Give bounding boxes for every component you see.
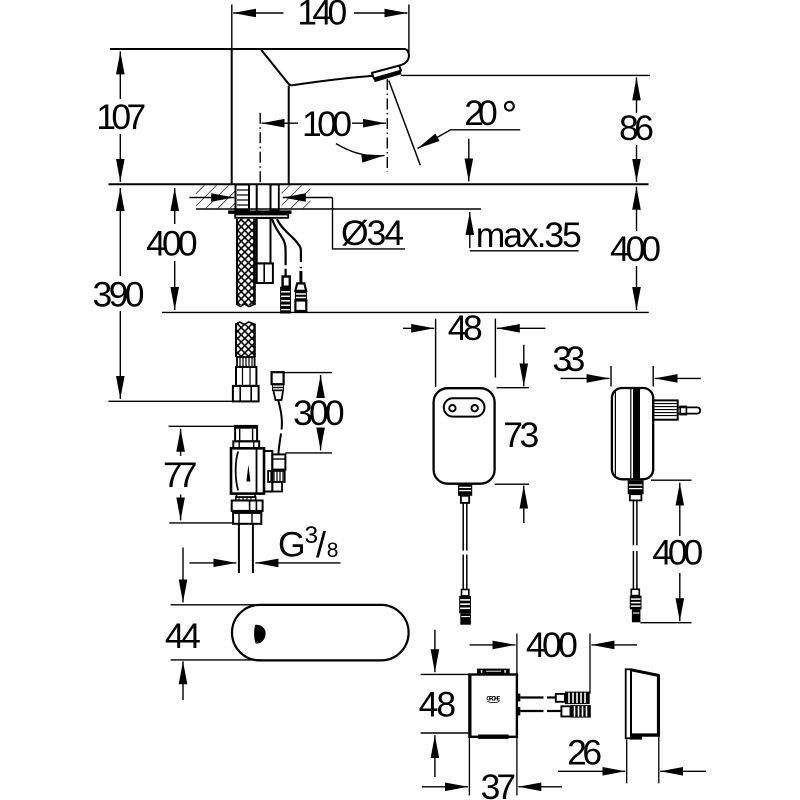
dimension 400 left arrow up: [174, 188, 176, 224]
hose collar: [236, 367, 256, 386]
svg-text:48: 48: [448, 308, 483, 348]
dimension 33 arrow left: [561, 377, 610, 379]
svg-text:86: 86: [619, 108, 654, 148]
counter underside line: [196, 208, 481, 210]
dimension 37 arrow right: [518, 786, 562, 788]
cover bottom step: [630, 736, 642, 740]
svg-text:/: /: [316, 524, 326, 565]
shank inner tube: [257, 185, 271, 211]
dimension 400 adapter label: [652, 532, 703, 572]
control box right edge extension upper: [516, 634, 518, 675]
dimension 140 arrow right: [354, 12, 408, 14]
dimension 390 arrow down: [119, 311, 121, 399]
20 degree leader line: [418, 130, 521, 149]
dimension 400 right label: [610, 229, 661, 269]
control box right edge extension lower: [516, 737, 518, 796]
svg-text:G: G: [278, 524, 306, 564]
svg-text:26: 26: [567, 733, 602, 773]
angle arc with arrow: [336, 144, 385, 156]
dimension 26 arrow right: [660, 770, 706, 772]
box wire nub 1: [517, 694, 520, 702]
dimension 400 right arrow up: [636, 187, 638, 231]
box wire 2 connector: [561, 705, 590, 718]
solenoid cable: [278, 400, 282, 455]
dimension 48 adapter label: [448, 308, 483, 348]
dimension 107 arrow up: [119, 51, 121, 99]
euro plug pin: [678, 406, 700, 414]
faucet spout underside: [291, 76, 372, 86]
socket hole right: [472, 405, 478, 411]
svg-text:77: 77: [163, 455, 198, 495]
dimension 77 tick top: [169, 425, 235, 427]
svg-text:44: 44: [165, 616, 201, 656]
dimension 73 arrow up: [523, 486, 525, 523]
svg-text:Ø34: Ø34: [341, 213, 404, 253]
adapter side cord connector: [630, 589, 642, 622]
faucet neck diagonal: [261, 50, 291, 85]
dimension 48 box label: [419, 685, 457, 725]
faucet spout right edge curve: [399, 56, 409, 66]
power adapter front body: [434, 388, 495, 484]
dimension 140 arrow left: [233, 12, 283, 14]
box wire 1 connector: [556, 692, 590, 705]
svg-text:390: 390: [93, 275, 145, 315]
control box bottom bar: [478, 735, 508, 739]
20 degree label: [464, 93, 514, 133]
valve outlet neck: [237, 494, 256, 498]
dimension 33 extension left: [610, 366, 612, 387]
max.35 label: [476, 215, 582, 255]
svg-text:400: 400: [146, 224, 198, 264]
box wire 2: [520, 710, 561, 712]
svg-text:max.35: max.35: [476, 215, 582, 255]
valve collar: [233, 441, 259, 448]
faucet sensor centerline: [259, 113, 261, 184]
thread size G3/8 arrow left: [189, 562, 236, 564]
thread size label G3/8: [278, 522, 338, 565]
dimension 26 label: [567, 733, 602, 773]
diameter 34 label: [341, 213, 404, 253]
dimension 48 adapter extension left: [435, 319, 437, 387]
mounting flange plate: [228, 210, 291, 214]
supply hose upper braided segment: [236, 219, 255, 307]
thread size G3/8 arrow right: [255, 562, 340, 564]
svg-text:400: 400: [610, 229, 661, 269]
svg-text:400: 400: [526, 625, 578, 665]
dimension 44 arrow up: [182, 661, 184, 700]
dimension 107 arrow down: [119, 134, 121, 182]
dimension 100 arrow left: [262, 122, 298, 124]
dimension 37 arrow left: [422, 786, 468, 788]
svg-text:20: 20: [464, 93, 498, 133]
svg-text:400: 400: [652, 532, 703, 572]
dimension 33 label: [552, 339, 585, 379]
dimension 86 arrow up: [636, 77, 638, 113]
countertop surface down arrow: [468, 139, 470, 182]
sensor wire 1 plug: [280, 277, 291, 314]
control box top cap: [477, 669, 510, 675]
valve ribbed ring: [236, 497, 256, 500]
dimension 390 label: [93, 275, 145, 315]
solenoid terminal block: [272, 454, 285, 469]
svg-text:107: 107: [96, 97, 146, 137]
sensor capsule escutcheon: [232, 605, 409, 661]
box wire 1: [520, 696, 556, 698]
euro plug base: [653, 400, 678, 419]
dimension 400 left label: [146, 224, 198, 264]
adapter front cord: [463, 503, 467, 590]
hose nut G3/8: [233, 386, 259, 402]
svg-text:8: 8: [327, 539, 339, 562]
adapter front strain relief: [458, 484, 472, 503]
control box body: [469, 675, 517, 737]
check valve body: [231, 448, 264, 493]
dimension 26 extension left: [626, 740, 628, 784]
counter hatch right: [282, 185, 311, 208]
adapter side cord: [633, 500, 637, 589]
socket hole left: [449, 405, 455, 411]
aerator height reference line: [401, 74, 650, 76]
mounting washer plate: [235, 215, 288, 218]
euro socket face: [444, 398, 485, 416]
svg-text:140: 140: [297, 0, 347, 33]
solenoid side plate: [264, 451, 272, 492]
diameter 34 arrow left: [190, 197, 235, 199]
dimension 33 extension right: [652, 366, 654, 387]
shank outer tube: [271, 185, 279, 211]
dimension 48 box tick top: [421, 673, 469, 675]
dimension 400 left arrow down: [174, 261, 176, 310]
dimension 77 arrow up: [180, 429, 182, 456]
svg-text:37: 37: [481, 767, 517, 800]
valve inlet stub: [235, 426, 257, 441]
sensor window: [254, 625, 266, 644]
dimension 26 extension right: [658, 736, 660, 783]
max.35 leader underline: [470, 250, 579, 252]
sensor wire 1: [272, 219, 286, 277]
svg-text:300: 300: [293, 393, 345, 433]
sensor wire 2: [277, 219, 301, 268]
dimension 100 arrow right: [352, 122, 386, 124]
dimension 77 arrow down: [180, 495, 182, 521]
dimension 400 box arrow right: [591, 644, 637, 646]
dimension 300 label: [293, 393, 345, 433]
dimension 44 arrow down: [182, 548, 184, 603]
sensor wire 2 plug: [295, 271, 307, 311]
dimension 48 box tick bottom: [421, 732, 469, 734]
hose knurled ferrule: [237, 357, 255, 367]
faucet aerator: [372, 66, 401, 81]
dimension 140 label: [297, 0, 347, 33]
solenoid knurled nut: [268, 471, 285, 482]
diameter 34 arrow right: [283, 197, 333, 199]
water stream line 20 degrees: [389, 81, 421, 166]
outlet pipe: [239, 524, 253, 573]
faucet body right edge: [288, 86, 290, 185]
dimension 300 arrow up: [320, 375, 322, 396]
dimension 390 arrow up: [119, 188, 121, 276]
dimension 400 box arrow left: [470, 644, 516, 646]
adapter side seam band: [633, 389, 640, 479]
dimension 400 right arrow down: [636, 266, 638, 310]
faucet threaded shank: [236, 185, 250, 211]
aerator centerline: [386, 79, 388, 172]
dimension 400 adapter tick bottom: [640, 622, 691, 624]
cover cap side view: [631, 670, 659, 736]
pull rod tube: [257, 218, 271, 263]
dimension 86 label: [619, 108, 654, 148]
svg-text:33: 33: [552, 339, 585, 379]
adapter side strain relief: [628, 481, 644, 501]
adapter front cord connector: [459, 590, 471, 625]
dimension 44 tick top: [171, 604, 259, 606]
dimension 44 label: [165, 616, 201, 656]
valve dark band: [232, 510, 262, 513]
dimension 300 arrow down: [320, 429, 322, 451]
dimension 73 arrow down: [523, 345, 525, 387]
dimension 26 arrow left: [558, 770, 625, 772]
countertop line: [109, 183, 649, 185]
dimension 48 adapter arrow left: [403, 327, 434, 329]
cover mounting plate: [626, 669, 631, 738]
dimension 33 arrow right: [655, 377, 701, 379]
solenoid lower block: [272, 482, 282, 492]
dimension 300 tick top: [284, 372, 332, 374]
dimension 48 box arrow down: [434, 630, 436, 673]
dimension 48 adapter arrow right: [497, 327, 546, 329]
dimension 400 adapter tick top: [651, 479, 692, 481]
faucet top edge with 107 extension: [110, 49, 409, 56]
control box left edge extension lower: [468, 737, 470, 796]
valve outlet nut: [232, 501, 263, 511]
solenoid cable connector: [272, 372, 284, 400]
dimension 86 arrow down: [636, 145, 638, 182]
dimension 48 adapter extension right: [494, 319, 496, 378]
dimension 73 tick top: [497, 387, 529, 389]
dimension 140 extension line right: [408, 5, 410, 57]
hose length reference line: [108, 400, 233, 402]
dimension 300 tick bottom: [285, 452, 332, 454]
dimension 73 tick bottom: [495, 483, 529, 485]
dimension 400 box label: [526, 625, 578, 665]
svg-text:73: 73: [503, 415, 539, 455]
max.35 arrow up: [469, 212, 471, 248]
power adapter side body: [612, 388, 653, 479]
dimension 400 adapter arrow up: [679, 483, 681, 536]
dimension 48 box arrow up: [434, 735, 436, 777]
control box wire end extension: [589, 634, 591, 694]
dimension 100 label: [302, 104, 352, 144]
dimension 140 extension line left: [231, 5, 233, 50]
valve lower fitting: [233, 513, 261, 524]
dimension 107 label: [96, 97, 146, 137]
GROHE logo: [486, 697, 500, 703]
dimension 37 label: [481, 767, 517, 800]
dimension 73 label: [503, 415, 539, 455]
dimension 44 tick bottom: [171, 659, 262, 661]
wire length reference line: [162, 311, 649, 313]
dimension 77 tick bottom: [169, 522, 233, 524]
flow direction arrow: [246, 465, 250, 482]
dimension 77 label: [163, 455, 198, 495]
counter hatch left: [196, 185, 236, 208]
box wire nub 2: [517, 707, 520, 715]
supply hose lower braided segment: [235, 322, 254, 357]
svg-text:100: 100: [302, 104, 352, 144]
svg-text:48: 48: [419, 685, 457, 725]
dimension 400 adapter arrow down: [679, 573, 681, 621]
pull rod housing: [257, 263, 273, 283]
faucet body left edge: [231, 49, 233, 184]
diameter 34 leader: [333, 198, 406, 249]
